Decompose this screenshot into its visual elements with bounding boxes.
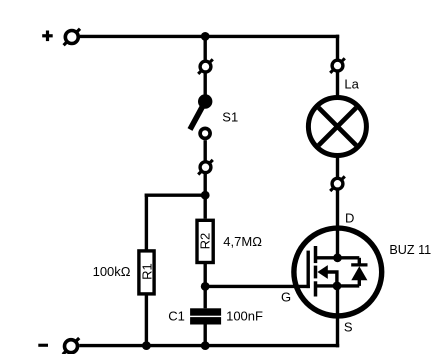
terminal -: [63, 338, 79, 354]
wire top rail: [80, 35, 339, 38]
wire R1 to bottom rail: [145, 295, 148, 347]
svg-text:La: La: [344, 76, 359, 91]
svg-text:R1: R1: [139, 263, 154, 280]
diode triangle: [351, 266, 367, 280]
svg-text:D: D: [345, 210, 354, 225]
svg-text:C1: C1: [168, 308, 185, 323]
substrate arrow: [317, 265, 327, 279]
wire lamp to terminal: [336, 157, 339, 178]
terminal switch bottom: [198, 160, 213, 175]
transistor Q1 BUZ11 body circle: [294, 228, 382, 316]
node top junction: [201, 32, 210, 41]
svg-text:S: S: [344, 319, 353, 334]
wire source: [336, 286, 339, 347]
node B junction R1/R2: [201, 191, 210, 200]
channel bar segments: [314, 246, 318, 297]
svg-text:100kΩ: 100kΩ: [93, 264, 131, 279]
node source junction: [333, 282, 342, 291]
wire R2 to C1: [203, 263, 206, 309]
svg-text:G: G: [281, 290, 291, 305]
node bottom junction C1: [201, 341, 210, 350]
capacitor C1: [190, 308, 221, 324]
resistor R1: [139, 251, 154, 294]
svg-text:BUZ 11: BUZ 11: [389, 243, 431, 257]
svg-text:S1: S1: [222, 109, 238, 124]
wire drain tap: [316, 256, 360, 259]
svg-text:4,7MΩ: 4,7MΩ: [223, 234, 262, 249]
minus sign: [38, 344, 48, 347]
wire switch contact to terminal: [203, 140, 206, 161]
wire node B to R1: [145, 194, 206, 250]
wire switch to node B: [203, 174, 206, 219]
wire substrate link: [327, 272, 337, 286]
terminal +: [64, 29, 80, 45]
wire lamp branch top: [336, 35, 339, 60]
node G junction gate: [201, 282, 210, 291]
gate bar: [307, 251, 310, 289]
terminal lamp top: [330, 58, 345, 73]
plus sign: [42, 31, 53, 42]
svg-text:R2: R2: [197, 233, 212, 250]
wire source tap: [316, 284, 360, 287]
diode anode lead: [358, 280, 361, 286]
wire bottom rail: [79, 344, 339, 347]
wire gate: [205, 285, 310, 288]
diode cathode bar: [351, 263, 367, 266]
wire drain: [336, 190, 339, 257]
switch S1: [190, 94, 212, 138]
node bottom junction R1: [142, 341, 151, 350]
wire terminal to lamp: [336, 72, 339, 96]
lamp La: [308, 98, 366, 156]
wire C1 to bottom rail: [203, 325, 206, 348]
terminal drain top: [330, 176, 345, 191]
wire switch branch upper: [203, 36, 206, 60]
resistor R2: [197, 220, 213, 262]
diode cathode lead: [358, 258, 361, 265]
node drain junction: [333, 253, 342, 262]
terminal switch top: [198, 59, 213, 74]
svg-text:100nF: 100nF: [226, 308, 263, 323]
wire terminal to switch pivot: [203, 73, 206, 96]
